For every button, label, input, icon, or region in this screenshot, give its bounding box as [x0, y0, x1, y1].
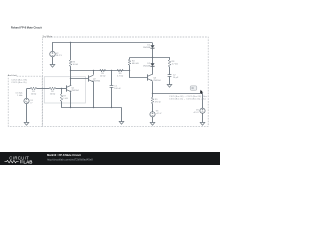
label R5	[100, 73, 106, 77]
wire V1 to R1	[27, 88, 31, 90]
transistor Q1	[67, 85, 72, 92]
resistor R4	[128, 60, 131, 66]
svg-text:Q1: Q1	[71, 87, 75, 89]
label Q3	[153, 77, 161, 82]
wire Qb base tap	[71, 78, 88, 80]
node rail C1	[111, 107, 112, 108]
note line 2	[11, 82, 27, 84]
wire Q3 emitter	[152, 81, 154, 93]
node base junction	[61, 88, 62, 89]
ground below V1	[24, 123, 29, 126]
label C1	[114, 85, 121, 90]
wire Qb emitter	[93, 81, 95, 107]
wire R4 top	[129, 57, 131, 59]
label D1	[143, 45, 151, 49]
wire R2 to Q1 base	[56, 88, 67, 90]
wire emitter to V4	[202, 93, 204, 108]
wire V4 to ground	[202, 113, 204, 122]
wire emitter node	[152, 93, 202, 95]
label V2	[56, 53, 63, 57]
svg-text:10 kΩ: 10 kΩ	[73, 64, 79, 66]
resistor R5	[100, 69, 106, 72]
wire emitter to R9	[152, 93, 154, 97]
resistor R3	[69, 60, 72, 66]
wire rail to ground	[121, 108, 123, 122]
node bias diode junction	[152, 57, 153, 58]
node Qb base tap	[70, 78, 71, 79]
label R8	[172, 61, 179, 66]
schematic title	[11, 25, 42, 29]
label Q2	[93, 78, 101, 82]
svg-text:100 nF: 100 nF	[114, 88, 121, 90]
wire C1 to rail	[111, 87, 113, 108]
label R2	[50, 91, 56, 95]
svg-text:1 kHz: 1 kHz	[17, 95, 22, 97]
svg-text:10 µF: 10 µF	[173, 77, 179, 79]
resistor R9	[151, 97, 154, 103]
transistor Q3	[148, 74, 153, 81]
svg-text:18.2 V: 18.2 V	[56, 55, 63, 57]
label R6	[117, 73, 124, 77]
label R1	[31, 91, 37, 95]
svg-text:1N4148: 1N4148	[143, 66, 151, 68]
node rail Qbe	[93, 107, 94, 108]
svg-text:10 kΩ: 10 kΩ	[50, 94, 56, 96]
svg-text:C1/C5 (Bus Ck): C1/C5 (Bus Ck)	[11, 82, 27, 84]
resistor R8	[168, 60, 171, 67]
svg-text:1 kΩ: 1 kΩ	[63, 98, 68, 100]
node row left	[70, 70, 71, 71]
svg-text:1N4148: 1N4148	[143, 47, 151, 49]
voltage source V1	[24, 98, 29, 103]
wire C2 to ground	[169, 76, 171, 85]
wire V2 to ground	[52, 57, 54, 65]
wire bias tap	[130, 57, 170, 59]
wire top rail	[52, 42, 152, 44]
wire R3 to Q1 collector	[70, 66, 72, 85]
wire rail to D1	[152, 43, 154, 46]
diode D2	[150, 63, 154, 66]
svg-text:-4.5 V: -4.5 V	[193, 112, 199, 114]
svg-text:0 °: 0 °	[30, 103, 33, 105]
wire R7 to rail	[61, 101, 63, 107]
wire rail to R3	[70, 43, 72, 61]
wire V3 to ground	[152, 117, 154, 123]
capacitor C2	[168, 75, 172, 77]
svg-text:470 Ω: 470 Ω	[155, 101, 161, 103]
node emitter	[152, 93, 153, 94]
svg-text:4.7 kΩ: 4.7 kΩ	[172, 64, 179, 66]
label Q1	[71, 87, 79, 92]
ground below C2	[167, 85, 172, 88]
voltage source V2	[50, 51, 56, 57]
transistor Q2	[89, 75, 94, 82]
node row C1 tap	[111, 70, 112, 71]
wire R9 to V3	[152, 104, 154, 112]
wire base junction down	[61, 89, 63, 94]
wire bottom rail	[61, 107, 121, 109]
label R7	[63, 95, 68, 99]
ground bottom rail	[119, 122, 124, 125]
resistor R2	[50, 87, 56, 90]
svg-text:10 kΩ: 10 kΩ	[100, 76, 106, 78]
capacitor C1	[110, 86, 114, 88]
svg-text:2N3904: 2N3904	[93, 81, 101, 83]
note emitter line 2	[169, 99, 206, 101]
svg-text:-4.5 V: -4.5 V	[156, 113, 162, 115]
svg-text:C1/C5 (Bus OK) → C1/C5 (Bus OK: C1/C5 (Bus OK) → C1/C5 (Bus OK) + Bus	[169, 96, 207, 98]
wire Qb collector	[93, 70, 95, 75]
wire D2 to Q3 collector	[152, 66, 154, 75]
voltage source V4	[200, 108, 205, 113]
wire Q1 emitter	[70, 92, 72, 108]
annotation box Aud Jack	[7, 74, 43, 126]
wire row to C1	[111, 70, 113, 85]
resistor R1	[31, 87, 37, 90]
footer bar with CircuitLab logo	[0, 152, 220, 165]
wire R4 down	[129, 65, 131, 78]
wire V1 down	[26, 104, 28, 123]
label V4	[193, 109, 199, 114]
svg-text:LAB: LAB	[23, 159, 32, 164]
ground below V4	[200, 123, 205, 126]
node row Qb collector	[93, 70, 94, 71]
annotation box 2nd Mute	[41, 35, 208, 127]
wire D1 to D2	[152, 48, 154, 63]
label V1 right	[30, 100, 33, 104]
svg-text:2nd Mute: 2nd Mute	[41, 35, 52, 38]
label D2	[143, 63, 151, 67]
wire V2 to rail	[52, 43, 54, 52]
svg-text:4.7 kΩ: 4.7 kΩ	[117, 76, 124, 78]
wire collector row	[71, 70, 130, 72]
ground below V3	[150, 123, 155, 126]
svg-text:Mark10 : FP-8 Mute Circuit: Mark10 : FP-8 Mute Circuit	[47, 153, 81, 157]
svg-text:680 kΩ: 680 kΩ	[132, 63, 139, 65]
label R9	[155, 99, 161, 104]
highlight box Q1 stage	[44, 77, 85, 103]
node R4 row junction	[129, 70, 130, 71]
node rail-R3 junction	[70, 42, 71, 43]
svg-text:2N3904: 2N3904	[71, 90, 79, 92]
wire R1 to R2	[37, 88, 50, 90]
resistor R6	[117, 69, 123, 72]
wire tap to R8	[169, 57, 171, 60]
label R3	[73, 61, 79, 66]
label V1 left	[16, 93, 23, 97]
resistor R7	[60, 94, 63, 101]
svg-text:2N3904: 2N3904	[153, 80, 161, 82]
label C2	[173, 75, 179, 80]
note emitter line 1	[169, 96, 207, 98]
wire to Q3 base	[130, 77, 148, 79]
label V3	[156, 110, 162, 115]
node rail Q1e	[70, 107, 71, 108]
wire R8 to C2	[169, 67, 171, 75]
ground below V2	[50, 65, 55, 68]
note line 1	[11, 79, 27, 81]
svg-text:10 kΩ: 10 kΩ	[31, 94, 37, 96]
svg-text:Roland FP-8 Mute Circuit: Roland FP-8 Mute Circuit	[11, 25, 42, 29]
voltage source V3	[150, 112, 155, 117]
svg-text:http:∕∕circuitlab.com∕c∕nd72b9: http:∕∕circuitlab.com∕c∕nd72b9b8ad45e8	[47, 157, 93, 161]
cursor tooltip icon	[190, 86, 203, 94]
svg-text:Aud Jack: Aud Jack	[7, 74, 18, 77]
diode D1	[150, 45, 154, 48]
wire V1 up	[26, 89, 28, 99]
label R4	[132, 61, 139, 66]
svg-text:C1/C5 (Bus Ck) → C1/C5 (Bus Ck: C1/C5 (Bus Ck) → C1/C5 (Bus Ck) + Bus	[169, 99, 206, 101]
